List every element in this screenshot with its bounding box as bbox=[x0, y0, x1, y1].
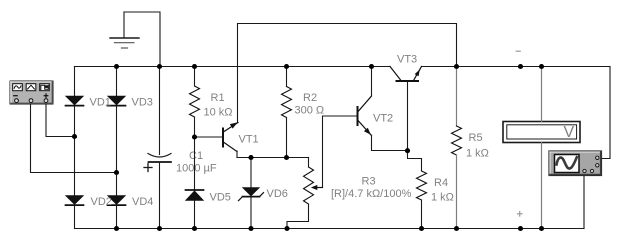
oscilloscope XSC1 bbox=[549, 151, 602, 176]
zener diode VD6 bbox=[239, 158, 264, 229]
wire R5 bottom lead (gray) bbox=[456, 155, 458, 229]
junction VT2 emitter / VT3 base / R4 bbox=[405, 148, 410, 153]
svg-text:VT2: VT2 bbox=[373, 112, 393, 124]
wire VD1/VD2 branch bbox=[74, 67, 76, 229]
ground bbox=[110, 12, 139, 48]
svg-text:C1: C1 bbox=[189, 150, 203, 162]
svg-text:VT3: VT3 bbox=[397, 54, 417, 66]
label + polarity mark at bus node bbox=[518, 212, 523, 217]
svg-text:VD2: VD2 bbox=[91, 196, 112, 208]
junction output rail / voltmeter bbox=[539, 64, 544, 69]
junction generator + / VD1 branch bbox=[72, 134, 77, 139]
wire voltmeter + lead (gray) bbox=[541, 67, 543, 122]
capacitor C1 bbox=[144, 67, 171, 229]
svg-text:[R]/4.7 kΩ/100%: [R]/4.7 kΩ/100% bbox=[331, 188, 412, 200]
junction generator common / VD3 branch bbox=[114, 170, 119, 175]
diode VD1 bbox=[66, 96, 84, 106]
junction bottom bus / VD6 bbox=[248, 226, 253, 231]
resistor R5 bbox=[452, 126, 462, 155]
wire output rail to oscilloscope input bbox=[602, 67, 611, 159]
wire VT3 base node to R4 bbox=[408, 151, 422, 172]
wire generator common to VD3/VD4 node bbox=[31, 105, 117, 173]
junction bottom bus / R3 bbox=[284, 226, 289, 231]
svg-text:R3: R3 bbox=[362, 176, 376, 188]
svg-text:10 kΩ: 10 kΩ bbox=[204, 107, 233, 119]
svg-text:VT1: VT1 bbox=[239, 134, 259, 146]
svg-text:VD3: VD3 bbox=[132, 97, 153, 109]
junction bottom bus / voltmeter bbox=[539, 226, 544, 231]
junction bottom bus / C1 bbox=[157, 226, 162, 231]
label - polarity mark at rail node bbox=[516, 50, 520, 52]
node + bottom bus bbox=[518, 226, 523, 231]
diode VD2 bbox=[66, 196, 84, 206]
junction top bus / C1 / ground drop bbox=[157, 64, 162, 69]
wire output rail bbox=[422, 66, 611, 68]
svg-text:R4: R4 bbox=[434, 177, 448, 189]
svg-text:300 Ω: 300 Ω bbox=[295, 105, 325, 117]
wire top bus (rectifier + rail) bbox=[75, 66, 391, 68]
junction bottom bus / VD4 bbox=[114, 226, 119, 231]
transistor VT3 bbox=[390, 67, 422, 151]
svg-text:R5: R5 bbox=[469, 132, 483, 144]
svg-text:1 kΩ: 1 kΩ bbox=[466, 148, 489, 160]
junction top bus / R2 bbox=[284, 64, 289, 69]
junction top bus / VT2 collector bbox=[369, 64, 374, 69]
voltmeter V1 bbox=[503, 122, 580, 143]
wire R5 top lead (gray) bbox=[456, 67, 458, 127]
junction bottom bus / R5 bbox=[454, 226, 459, 231]
transistor VT1 bbox=[195, 122, 239, 157]
junction bottom bus / R4 bbox=[419, 226, 424, 231]
wire generator + to VD1/VD2 node bbox=[46, 105, 75, 137]
svg-text:VD1: VD1 bbox=[90, 97, 111, 109]
junction top bus / R1 bbox=[192, 64, 197, 69]
resistor R4 bbox=[417, 171, 427, 229]
resistor R1 bbox=[190, 67, 200, 191]
wire VT1 collector rail to R3 top bbox=[237, 157, 309, 159]
junction bottom bus / VD5 bbox=[192, 226, 197, 231]
diode VD3 bbox=[108, 96, 126, 106]
junction collector rail / R2 bbox=[284, 155, 289, 160]
junction collector rail / VD6 bbox=[248, 155, 253, 160]
node - output rail bbox=[518, 64, 523, 69]
wire VD3/VD4 branch bbox=[116, 67, 118, 229]
wire bottom bus bbox=[75, 228, 584, 230]
junction top bus / VD3 bbox=[114, 64, 119, 69]
junction R1 / VT1 base / VD5 bbox=[192, 134, 197, 139]
diode VD4 bbox=[108, 196, 126, 206]
svg-text:R1: R1 bbox=[211, 92, 225, 104]
svg-text:R2: R2 bbox=[303, 92, 317, 104]
junction output rail / VT1 emitter drop bbox=[454, 64, 459, 69]
wire ground to top bus bbox=[124, 12, 160, 67]
transistor VT2 bbox=[357, 96, 372, 136]
resistor R2 bbox=[282, 67, 292, 158]
wire voltmeter - lead (gray) bbox=[541, 143, 543, 229]
svg-text:VD4: VD4 bbox=[132, 196, 153, 208]
wire VT1 emitter to output rail (jumper over top bus) bbox=[238, 24, 457, 124]
function generator XFG1 bbox=[10, 81, 53, 104]
svg-text:VD5: VD5 bbox=[210, 192, 231, 204]
potentiometer R3 bbox=[287, 158, 323, 229]
svg-text:VD6: VD6 bbox=[267, 188, 288, 200]
svg-text:1000 µF: 1000 µF bbox=[176, 163, 217, 175]
svg-text:1 kΩ: 1 kΩ bbox=[431, 192, 454, 204]
svg-text:V: V bbox=[564, 124, 575, 141]
wire oscilloscope ground to bottom bus bbox=[583, 173, 585, 229]
wire R3 wiper to VT2 base bbox=[323, 116, 358, 188]
diode VD5 bbox=[186, 190, 204, 229]
wire VT2 emitter to VT3 base node bbox=[372, 136, 408, 151]
wire VT2 collector to top bus bbox=[371, 67, 373, 97]
